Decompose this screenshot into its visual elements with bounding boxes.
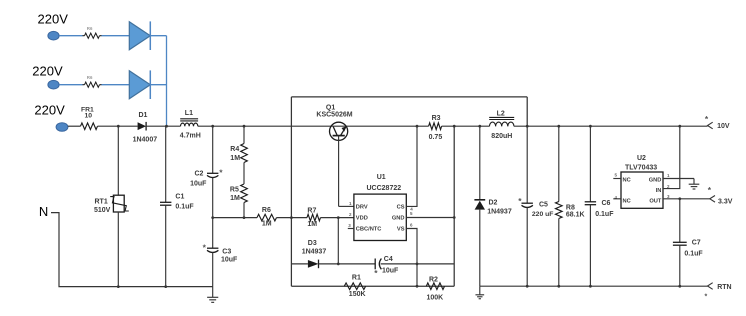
svg-text:0.1uF: 0.1uF xyxy=(175,203,194,210)
svg-text:C4: C4 xyxy=(384,256,393,263)
svg-text:R6: R6 xyxy=(87,75,93,80)
svg-text:C1: C1 xyxy=(175,193,184,200)
svg-text:3.3V: 3.3V xyxy=(718,199,733,206)
svg-text:U1: U1 xyxy=(377,174,386,181)
svg-text:GND: GND xyxy=(392,216,405,222)
svg-text:100K: 100K xyxy=(427,294,444,301)
svg-text:R5: R5 xyxy=(230,187,239,194)
svg-text:10uF: 10uF xyxy=(190,181,207,188)
svg-text:68.1K: 68.1K xyxy=(566,212,585,219)
svg-text:D1: D1 xyxy=(139,112,148,119)
svg-text:R3: R3 xyxy=(432,115,441,122)
svg-text:TLV70433: TLV70433 xyxy=(625,165,657,172)
svg-text:D3: D3 xyxy=(308,240,317,247)
svg-text:0.1uF: 0.1uF xyxy=(684,251,703,258)
svg-text:L1: L1 xyxy=(185,110,193,117)
svg-text:NC: NC xyxy=(623,178,631,184)
svg-text:C5: C5 xyxy=(539,202,548,209)
svg-text:KSC5026M: KSC5026M xyxy=(316,112,352,119)
svg-text:IN: IN xyxy=(656,188,662,194)
svg-text:510V: 510V xyxy=(94,207,111,214)
svg-text:R6: R6 xyxy=(262,207,271,214)
svg-text:UCC28722: UCC28722 xyxy=(367,185,402,192)
svg-text:*: * xyxy=(705,294,708,301)
svg-text:C6: C6 xyxy=(602,200,611,207)
svg-text:L2: L2 xyxy=(497,110,505,117)
svg-text:1M: 1M xyxy=(230,155,240,162)
svg-text:RT1: RT1 xyxy=(95,198,108,205)
svg-text:R8: R8 xyxy=(566,205,575,212)
svg-text:RTN: RTN xyxy=(717,284,731,291)
svg-text:220V: 220V xyxy=(34,102,65,117)
svg-text:C3: C3 xyxy=(222,248,231,255)
svg-text:VDD: VDD xyxy=(356,216,368,222)
svg-text:1N4937: 1N4937 xyxy=(487,209,512,216)
svg-text:D2: D2 xyxy=(489,200,498,207)
svg-text:CS: CS xyxy=(397,205,405,211)
svg-text:1M: 1M xyxy=(230,195,240,202)
svg-text:10uF: 10uF xyxy=(382,267,399,274)
svg-text:220V: 220V xyxy=(38,11,69,26)
svg-text:1N4007: 1N4007 xyxy=(133,137,158,144)
svg-text:U2: U2 xyxy=(637,155,646,162)
svg-text:R2: R2 xyxy=(429,277,438,284)
svg-text:0.75: 0.75 xyxy=(429,134,443,141)
svg-text:DRV: DRV xyxy=(356,205,368,211)
svg-text:220 uF: 220 uF xyxy=(532,211,554,218)
svg-text:10: 10 xyxy=(85,112,93,119)
svg-text:10uF: 10uF xyxy=(221,257,238,264)
svg-text:R7: R7 xyxy=(307,208,316,215)
svg-text:10V: 10V xyxy=(717,123,730,130)
svg-text:1M: 1M xyxy=(307,221,317,228)
svg-text:VS: VS xyxy=(397,227,405,233)
svg-text:OUT: OUT xyxy=(649,198,662,204)
svg-text:R1: R1 xyxy=(352,275,361,282)
svg-text:R4: R4 xyxy=(230,146,239,153)
svg-text:C7: C7 xyxy=(692,239,701,246)
svg-text:C2: C2 xyxy=(195,171,204,178)
svg-text:CBC/NTC: CBC/NTC xyxy=(356,227,382,233)
svg-text:1N4937: 1N4937 xyxy=(302,248,327,255)
svg-text:1M: 1M xyxy=(262,220,272,227)
svg-text:820uH: 820uH xyxy=(491,133,512,140)
svg-text:N: N xyxy=(39,204,48,219)
svg-text:220V: 220V xyxy=(32,64,63,79)
svg-text:R6: R6 xyxy=(87,26,93,31)
svg-text:Q1: Q1 xyxy=(326,105,335,112)
svg-text:GND: GND xyxy=(649,178,662,184)
svg-text:NC: NC xyxy=(623,198,631,204)
svg-text:4.7mH: 4.7mH xyxy=(180,132,201,139)
svg-text:150K: 150K xyxy=(349,291,366,298)
svg-text:0.1uF: 0.1uF xyxy=(595,211,614,218)
